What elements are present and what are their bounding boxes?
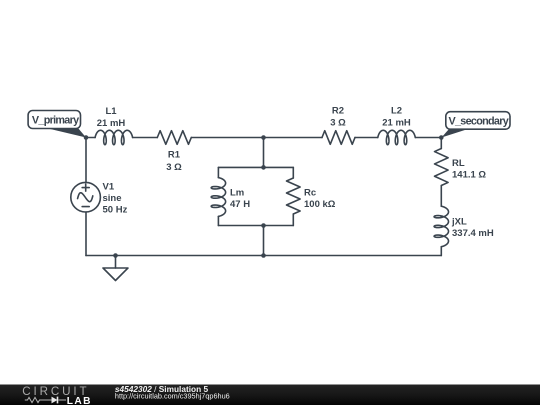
svg-text:337.4 mH: 337.4 mH [452, 228, 494, 239]
wire parallel box top [218, 166, 293, 168]
wire between R2 and L2 [355, 137, 378, 139]
svg-text:50 Hz: 50 Hz [103, 205, 128, 216]
svg-text:47 H: 47 H [230, 199, 250, 210]
node ground junction [113, 253, 118, 258]
wire left rail lower (V1 to bottom rail) [85, 212, 87, 256]
wire right rail lower lead [440, 247, 442, 256]
svg-text:R2: R2 [332, 106, 344, 117]
wire bottom rail [86, 255, 441, 257]
footer bar background [0, 385, 540, 405]
node V_primary [84, 135, 89, 140]
svg-text:sine: sine [103, 193, 122, 204]
resistor R1 [157, 131, 191, 173]
wire right rail middle [440, 186, 442, 207]
resistor Rc [287, 178, 336, 214]
wire box right lower lead [292, 214, 294, 226]
inductor L2 [378, 106, 416, 145]
svg-text:LAB: LAB [67, 396, 92, 405]
svg-text:V_secondary: V_secondary [449, 115, 509, 127]
flag label V_secondary [442, 112, 511, 138]
node top middle junction [261, 135, 266, 140]
inductor jXL [434, 206, 494, 247]
svg-text:100 kΩ: 100 kΩ [304, 199, 336, 210]
wire between R1 and middle node [191, 137, 263, 139]
wire middle rail lower [263, 226, 265, 256]
svg-text:R1: R1 [168, 150, 181, 161]
inductor Lm [211, 178, 250, 217]
node bottom middle junction [261, 253, 266, 258]
node box bottom junction [261, 223, 266, 228]
resistor RL [435, 149, 487, 186]
svg-text:V1: V1 [103, 182, 115, 193]
wire between L1 and R1 [133, 137, 158, 139]
svg-text:Lm: Lm [230, 188, 244, 199]
wire box left upper lead [217, 167, 219, 177]
CircuitLab logo resistor-diode symbol [25, 397, 52, 402]
svg-text:Rc: Rc [304, 188, 316, 199]
voltage source V1 [71, 182, 128, 216]
svg-text:21 mH: 21 mH [382, 118, 411, 129]
svg-text:V_primary: V_primary [32, 114, 79, 126]
resistor R2 [322, 106, 355, 145]
wire top rail segment from V_primary node to L1 [86, 137, 95, 139]
wire between L2 and V_secondary node [415, 137, 441, 139]
svg-text:jXL: jXL [451, 217, 467, 228]
svg-text:L2: L2 [391, 106, 402, 117]
svg-text:141.1 Ω: 141.1 Ω [452, 170, 486, 181]
wire box right upper lead [292, 167, 294, 178]
wire box left lower lead [217, 216, 219, 225]
flag label V_primary [28, 111, 86, 138]
svg-text:RL: RL [452, 158, 465, 169]
svg-text:L1: L1 [105, 106, 117, 117]
wire parallel box bottom [218, 225, 293, 227]
svg-text:http://circuitlab.com/c395hj7q: http://circuitlab.com/c395hj7qp6hu6 [115, 391, 230, 400]
wire between middle node and R2 [264, 137, 323, 139]
svg-text:21 mH: 21 mH [97, 118, 126, 129]
svg-text:3 Ω: 3 Ω [330, 118, 346, 129]
ground [103, 256, 128, 281]
wire left rail upper (node to V1) [85, 138, 87, 183]
svg-text:3 Ω: 3 Ω [166, 162, 182, 173]
wire middle rail upper [263, 138, 265, 168]
node box top junction [261, 165, 266, 170]
node V_secondary [439, 135, 444, 140]
wire right rail upper lead [440, 138, 442, 149]
inductor L1 [95, 106, 133, 145]
